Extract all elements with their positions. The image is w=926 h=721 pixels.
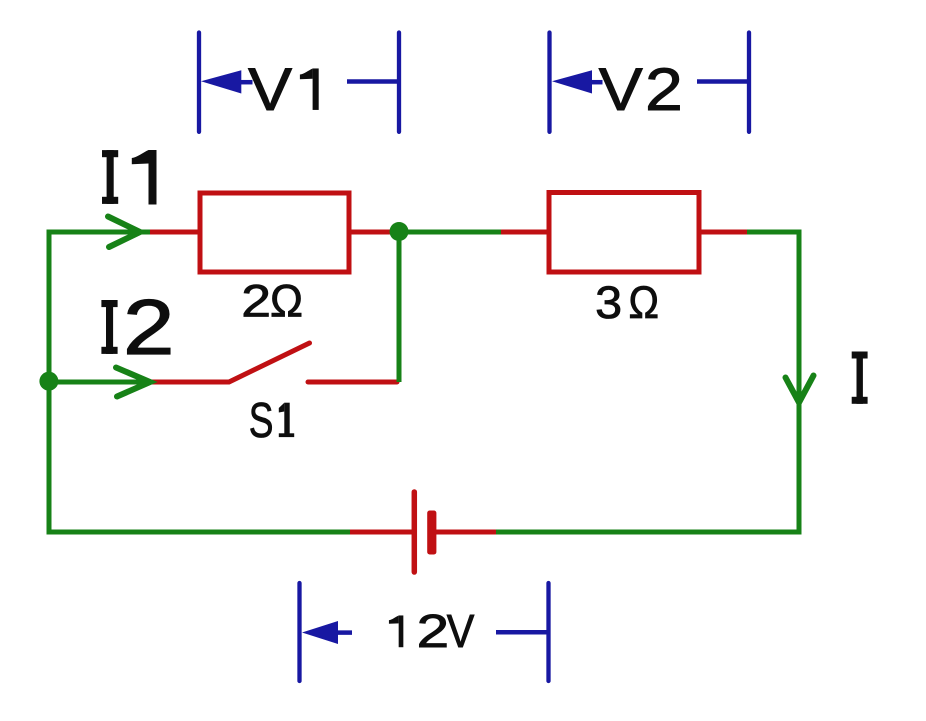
V1 marker right stub: [347, 79, 398, 84]
12V marker right bar: [546, 583, 550, 681]
svg-text:V: V: [248, 56, 292, 123]
wire: red switch right contact to green vertical: [308, 380, 397, 385]
svg-text:V: V: [447, 605, 475, 657]
svg-text:S: S: [249, 394, 274, 448]
svg-text:Ω: Ω: [629, 277, 660, 328]
V2 marker left bar: [547, 33, 551, 132]
resistor R1 (2 ohm): [200, 193, 349, 272]
svg-text:Ω: Ω: [270, 276, 303, 327]
svg-text:2: 2: [417, 605, 450, 657]
12V marker left bar: [297, 583, 301, 681]
wire: left vertical loop (green) from I1 wire down and along bottom: [49, 232, 351, 532]
wire: red lead into R1: [150, 230, 200, 235]
wire: red lead battery right: [436, 530, 496, 535]
svg-text:2: 2: [241, 276, 271, 327]
switch S1 blade (open): [229, 343, 310, 382]
label 12V: [389, 605, 475, 657]
wire: green branch I2 from node B: [49, 380, 152, 385]
battery B1 long plate: [412, 492, 418, 572]
resistor R2 (3 ohm): [549, 193, 699, 273]
V1 marker arrow: [201, 70, 241, 93]
label I (right branch current): [852, 352, 868, 404]
wire: red lead out of R1 to node A: [349, 230, 394, 235]
node B junction dot: [39, 372, 58, 391]
wire: red lead out of R2: [699, 230, 747, 235]
V2 marker right stub: [697, 79, 748, 84]
wire: red lead battery left: [350, 530, 412, 535]
svg-text:2: 2: [645, 56, 683, 123]
wire: green node A to lead of R2: [399, 230, 501, 235]
wire: red lead to switch left contact: [152, 380, 229, 385]
label I2: [101, 283, 174, 371]
V2 marker right bar: [747, 33, 751, 132]
12V marker right stub: [496, 630, 547, 635]
current arrow I2 (green chevron): [116, 368, 150, 397]
label S1: [249, 394, 294, 448]
label V1: [248, 56, 319, 123]
current arrow I1 (green chevron): [108, 217, 140, 248]
svg-text:V: V: [599, 56, 643, 123]
V1 marker left bar: [197, 33, 201, 132]
12V marker arrow: [302, 621, 338, 644]
V2 marker arrow: [552, 70, 592, 93]
node A junction dot: [390, 222, 409, 241]
label 3 ohm: [595, 277, 659, 328]
label I1: [102, 150, 157, 205]
wire: green vertical from node A down to switch wire: [397, 232, 402, 382]
svg-text:3: 3: [595, 277, 622, 328]
label 2 ohm: [241, 276, 303, 327]
battery B1 short plate: [427, 511, 436, 555]
wire: red lead into R2: [501, 230, 549, 235]
svg-text:2: 2: [123, 283, 175, 371]
current arrow I (green chevron, down): [786, 376, 814, 403]
V1 marker right bar: [397, 33, 401, 132]
wire: green right branch down to bottom: [496, 232, 799, 532]
label V2: [599, 56, 683, 123]
